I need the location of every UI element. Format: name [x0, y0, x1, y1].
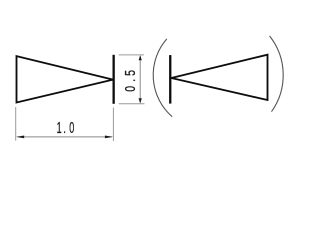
dimension 0.5 : value label "0.5" (rotated) — [121, 70, 138, 92]
left tapered transducer element (triangle outline) — [17, 56, 114, 102]
dimension 1.0 : horizontal dimension line — [18, 136, 112, 138]
opening parenthesis arc of right figure — [153, 39, 172, 117]
svg-text:1: 1 — [57, 118, 62, 136]
right figure end bar (thick vertical electrode) — [169, 55, 171, 104]
dimension 1.0 : right arrowhead — [105, 136, 113, 139]
dimension 0.5 : upper arrowhead — [139, 55, 142, 60]
dimension 1.0 : left arrowhead — [16, 136, 24, 139]
dimension 0.5 : bottom extension line — [119, 103, 145, 105]
left end bar (thick vertical electrode) — [113, 55, 115, 104]
svg-text:0: 0 — [121, 86, 138, 92]
dimension 0.5 : lower arrowhead — [139, 98, 142, 103]
closing parenthesis arc of right figure — [270, 36, 284, 112]
dimension 1.0 : right extension line — [112, 108, 114, 142]
svg-text:.: . — [63, 118, 66, 136]
svg-text:.: . — [121, 79, 138, 82]
right mirrored tapered transducer element (triangle outline) — [171, 55, 267, 100]
dimension 1.0 : value label "1.0" — [57, 118, 75, 136]
dimension 0.5 : top extension line — [119, 54, 144, 56]
dimension 1.0 : left extension line — [15, 107, 17, 141]
svg-text:5: 5 — [121, 70, 138, 76]
dimension 0.5 : vertical dimension line — [139, 57, 141, 103]
svg-text:0: 0 — [69, 118, 74, 136]
